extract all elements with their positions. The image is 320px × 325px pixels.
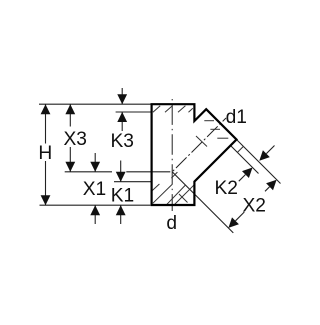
dimension X3 <box>65 104 75 172</box>
dimension H <box>41 104 51 205</box>
svg-text:H: H <box>38 143 52 164</box>
branch socket bottom line <box>196 136 207 147</box>
mid reference line right <box>126 171 170 173</box>
K3 depth line <box>116 111 151 113</box>
dimension K3 <box>117 88 127 131</box>
hatch line 4 <box>175 184 195 204</box>
branch extension tick <box>237 146 243 152</box>
branch socket tick 1 <box>204 120 214 122</box>
branch centerline <box>173 118 226 171</box>
top socket tick 3 <box>178 106 185 113</box>
dimension K2 <box>239 146 275 182</box>
top socket tick 4 <box>189 108 193 112</box>
hatch line 3 <box>167 185 186 204</box>
svg-text:X2: X2 <box>242 196 265 217</box>
bottom reference line <box>40 204 151 206</box>
svg-text:d: d <box>166 213 177 234</box>
hatch line 2 <box>153 185 172 204</box>
svg-text:K2: K2 <box>214 178 237 199</box>
K1 depth line <box>114 181 151 183</box>
dimension X2 <box>228 180 276 228</box>
hatch line 1 <box>152 184 159 191</box>
main pipe centerline <box>171 99 173 211</box>
branch face extension line <box>237 140 281 184</box>
hatch line 6 <box>171 172 177 178</box>
svg-text:X3: X3 <box>63 129 86 150</box>
branch socket tick 3 <box>217 137 228 139</box>
mid reference line left <box>65 171 112 173</box>
svg-text:K3: K3 <box>110 131 133 152</box>
dimension X1 <box>90 153 100 224</box>
hatch line 5 <box>179 194 188 203</box>
branch socket tick 2 <box>210 128 220 130</box>
svg-text:X1: X1 <box>83 179 106 200</box>
svg-text:K1: K1 <box>111 185 134 206</box>
dimension K1 <box>116 161 126 225</box>
top reference line <box>39 103 151 105</box>
branch depth line B <box>231 146 259 174</box>
svg-text:d1: d1 <box>226 107 247 128</box>
branch lower witness line C <box>172 172 233 233</box>
top socket tick 1 <box>153 106 160 113</box>
fitting body outline <box>152 104 237 205</box>
top socket tick 2 <box>165 106 172 113</box>
